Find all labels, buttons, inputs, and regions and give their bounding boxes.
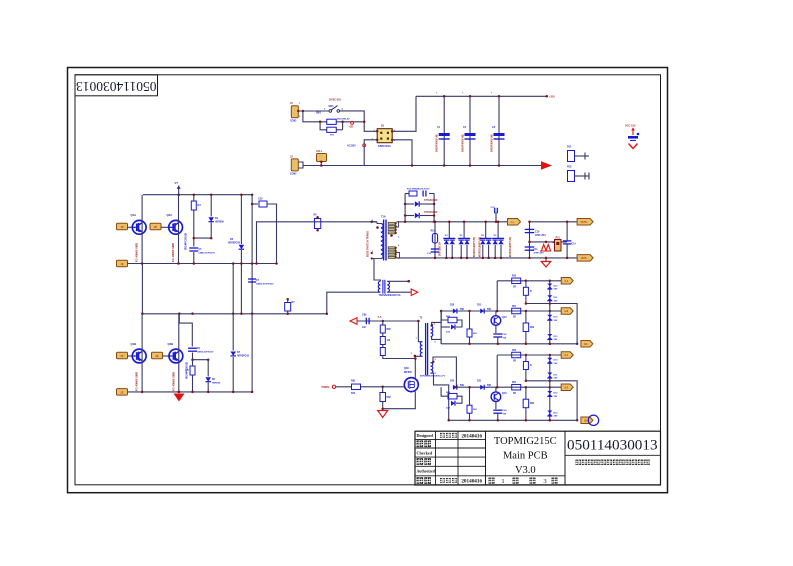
svg-text:SW1: SW1 — [329, 106, 335, 108]
svg-text:STTH6010W: STTH6010W — [424, 212, 438, 214]
svg-text:55K: 55K — [487, 385, 492, 387]
svg-text:CON2: CON2 — [290, 174, 297, 176]
svg-text:R51: R51 — [512, 306, 517, 308]
svg-text:R50: R50 — [512, 276, 517, 278]
svg-text:47NF-2KV: 47NF-2KV — [535, 234, 546, 237]
svg-text:TOPMIG215C: TOPMIG215C — [494, 436, 557, 447]
svg-text:2E: 2E — [156, 355, 159, 358]
svg-text:3: 3 — [543, 478, 546, 485]
svg-text:Q10: Q10 — [502, 392, 507, 395]
svg-text:Q30: Q30 — [404, 367, 409, 370]
svg-text:1: 1 — [501, 478, 504, 485]
svg-text:C10: C10 — [535, 231, 540, 234]
svg-text:FD2: FD2 — [567, 166, 572, 169]
svg-text:G2: G2 — [584, 419, 588, 423]
svg-text:V3.0: V3.0 — [515, 465, 536, 476]
svg-text:HER3PC08: HER3PC08 — [237, 356, 250, 358]
svg-text:CBB2.2UF/630V: CBB2.2UF/630V — [199, 253, 216, 255]
svg-text:18V: 18V — [554, 339, 558, 341]
svg-text:VCC-15V: VCC-15V — [625, 125, 636, 128]
svg-text:HER608: HER608 — [212, 383, 221, 385]
svg-text:18V: 18V — [554, 396, 558, 398]
svg-text:TRANS2/EE13/CT1A: TRANS2/EE13/CT1A — [379, 294, 401, 297]
svg-text:Main PCB: Main PCB — [503, 451, 548, 462]
svg-text:1-2: 1-2 — [564, 309, 568, 313]
svg-text:DY8C-201: DY8C-201 — [329, 98, 342, 102]
svg-text:55K: 55K — [487, 309, 492, 311]
svg-text:Q2B: Q2B — [168, 342, 174, 346]
svg-text:-: - — [411, 280, 412, 284]
svg-text:ACL1: ACL1 — [316, 150, 323, 153]
svg-text:C96: C96 — [362, 314, 367, 317]
svg-text:SW1: SW1 — [316, 113, 322, 115]
svg-text:2-1: 2-1 — [564, 353, 568, 357]
svg-text:L+: L+ — [511, 220, 515, 224]
svg-text:1E: 1E — [121, 263, 124, 266]
svg-text:+JD: +JD — [348, 126, 353, 129]
svg-text:55K: 55K — [460, 385, 465, 387]
svg-text:560UF/400V (N): 560UF/400V (N) — [436, 134, 439, 152]
svg-text:FG 40N60 SMD: FG 40N60 SMD — [171, 372, 175, 391]
svg-text:EE55 SWITCH TRANS: EE55 SWITCH TRANS — [367, 231, 370, 257]
svg-text:D20: D20 — [450, 381, 455, 383]
svg-text:FG 40N60 SMD: FG 40N60 SMD — [135, 243, 139, 262]
svg-text:5R: 5R — [513, 361, 516, 363]
svg-text:OUT-: OUT- — [581, 256, 587, 260]
svg-text:MUR30100PT (N): MUR30100PT (N) — [478, 237, 481, 257]
svg-text:R50: R50 — [512, 350, 517, 352]
svg-text:HER3PC08: HER3PC08 — [228, 243, 241, 245]
svg-text:STTH6010W: STTH6010W — [424, 200, 438, 202]
svg-text:C14: C14 — [572, 243, 577, 246]
svg-text:AC220V: AC220V — [347, 145, 356, 148]
svg-text:CBB0.47UF/630V: CBB0.47UF/630V — [256, 283, 274, 286]
svg-text:MUR30100PT (N): MUR30100PT (N) — [473, 237, 476, 257]
svg-text:MUR30100PT (N): MUR30100PT (N) — [509, 237, 512, 257]
svg-text:R62: R62 — [530, 403, 535, 405]
svg-text:1P: 1P — [121, 226, 124, 229]
svg-text:R81: R81 — [351, 380, 356, 383]
svg-text:55K: 55K — [460, 309, 465, 311]
svg-text:OUT+: OUT+ — [581, 220, 588, 224]
svg-text:C20: C20 — [258, 198, 263, 201]
svg-text:18V: 18V — [554, 363, 558, 365]
svg-text:20140416: 20140416 — [461, 433, 482, 439]
svg-text:VT: VT — [175, 181, 179, 185]
svg-text:*L5: *L5 — [378, 316, 383, 319]
svg-text:R51: R51 — [512, 382, 517, 384]
svg-text:R10 SRW28LEX-E13V: R10 SRW28LEX-E13V — [407, 189, 430, 191]
svg-text:R82: R82 — [387, 397, 392, 399]
svg-text:R62: R62 — [530, 327, 535, 329]
svg-text:560UF/400V (N): 560UF/400V (N) — [491, 134, 494, 152]
svg-text:T1A: T1A — [381, 216, 386, 219]
svg-text:2P: 2P — [154, 226, 157, 229]
svg-text:18V: 18V — [554, 289, 558, 291]
svg-text:560UF/400V (N): 560UF/400V (N) — [462, 134, 465, 152]
svg-text:20140416: 20140416 — [461, 478, 482, 484]
svg-text:+310: +310 — [549, 95, 555, 99]
svg-text:3R3 CBB 104: 3R3 CBB 104 — [438, 241, 441, 256]
svg-text:47NF-2KV: 47NF-2KV — [534, 252, 545, 255]
svg-text:CBB2.2UF/630V: CBB2.2UF/630V — [197, 352, 214, 354]
svg-text:1-1: 1-1 — [564, 279, 568, 283]
svg-text:D21: D21 — [477, 305, 482, 307]
svg-text:5R: 5R — [513, 286, 516, 288]
svg-text:2E: 2E — [121, 391, 124, 394]
svg-text:2P: 2P — [121, 355, 124, 358]
svg-text:Checked: Checked — [417, 451, 433, 456]
svg-text:D21: D21 — [477, 381, 482, 383]
svg-text:Q10: Q10 — [502, 316, 507, 319]
svg-text:18V: 18V — [554, 320, 558, 322]
svg-text:D20: D20 — [450, 305, 455, 307]
svg-text:18V: 18V — [554, 416, 558, 418]
svg-text:Q1A: Q1A — [131, 213, 137, 217]
svg-text:Designed: Designed — [417, 433, 434, 438]
svg-text:CON2: CON2 — [290, 121, 297, 123]
svg-text:KBPC5010: KBPC5010 — [378, 145, 391, 148]
svg-text:51R: 51R — [351, 393, 356, 395]
svg-text:050114030013: 050114030013 — [567, 437, 658, 454]
svg-text:R11: R11 — [431, 231, 436, 233]
svg-text:2-2: 2-2 — [564, 385, 568, 389]
svg-text:5R: 5R — [513, 317, 516, 319]
svg-text:SW1-RELAY: SW1-RELAY — [337, 117, 350, 120]
svg-text:HER608: HER608 — [215, 222, 224, 224]
svg-text:PWM1: PWM1 — [322, 385, 330, 389]
svg-text:G1: G1 — [584, 342, 588, 346]
svg-text:RV1: RV1 — [556, 237, 561, 239]
svg-text:Q1B: Q1B — [131, 342, 137, 346]
svg-text:5R: 5R — [513, 393, 516, 395]
svg-text:FG 40N60 SMD: FG 40N60 SMD — [171, 243, 175, 262]
svg-text:FG 40N60 SMD: FG 40N60 SMD — [135, 372, 139, 391]
svg-text:Authorized: Authorized — [417, 469, 436, 473]
svg-text:R80: R80 — [387, 329, 392, 331]
svg-text:IRG4PC50UD: IRG4PC50UD — [184, 233, 188, 250]
svg-text:18V: 18V — [554, 378, 558, 380]
svg-text:18V: 18V — [554, 300, 558, 302]
svg-text:FD1: FD1 — [567, 146, 572, 149]
svg-text:Q2A: Q2A — [167, 213, 173, 217]
svg-text:C11: C11 — [534, 249, 539, 251]
svg-text:IRF630: IRF630 — [404, 371, 413, 374]
svg-text:050114030013: 050114030013 — [76, 79, 157, 94]
